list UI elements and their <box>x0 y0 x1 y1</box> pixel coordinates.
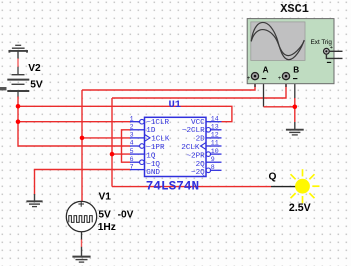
svg-text:10: 10 <box>211 148 219 155</box>
svg-text:9: 9 <box>211 156 215 163</box>
battery V2 <box>7 75 29 98</box>
wire: clock vertical V1 to top <box>81 90 83 202</box>
svg-text:U1: U1 <box>169 99 182 111</box>
svg-text:V2: V2 <box>28 63 41 74</box>
ground (bottom left) <box>26 194 42 207</box>
svg-text:~1Q: ~1Q <box>146 161 160 169</box>
wire: battery top pin (red segment) <box>17 59 19 68</box>
scope waveform trace 1 <box>251 22 304 59</box>
svg-text:12: 12 <box>211 132 219 139</box>
pin 12 2D <box>196 132 222 144</box>
wire: GND pin 7 to ground <box>35 170 131 195</box>
svg-text:1D: 1D <box>146 127 156 135</box>
junction clock/1CLK <box>80 136 85 141</box>
svg-text:B: B <box>293 65 299 74</box>
probe Q indicator <box>291 169 320 203</box>
svg-text:+: + <box>278 76 282 82</box>
pin 4 ~1PR <box>130 140 165 152</box>
svg-text:5V: 5V <box>30 79 43 90</box>
svg-text:A: A <box>263 65 269 74</box>
wire: Q net to scope B <box>112 84 286 98</box>
svg-text:VCC: VCC <box>191 119 205 127</box>
wire: VCC net battery to pin 14 <box>18 106 232 121</box>
scope A+ terminal stem <box>254 80 256 87</box>
wire: battery to pin 1 ~1CLR <box>18 121 130 123</box>
svg-text:1CLK: 1CLK <box>151 136 170 144</box>
svg-text:1: 1 <box>130 115 134 122</box>
Ext Trig terminal <box>324 45 343 63</box>
pin 1 ~1CLR <box>130 115 170 126</box>
wire: battery down leg to pin4 row <box>18 97 130 147</box>
pin 13 ~2CLR <box>182 124 222 136</box>
svg-text:8: 8 <box>211 164 215 171</box>
pin 6 ~1Q <box>130 156 161 169</box>
svg-text:~2PR: ~2PR <box>186 152 205 160</box>
svg-text:2.5V: 2.5V <box>289 202 311 214</box>
pin 14 VCC <box>191 115 221 126</box>
svg-text:~2Q: ~2Q <box>191 169 205 177</box>
pin 2 1D <box>130 124 156 136</box>
wire: Q net to pin 5 1Q <box>112 153 130 155</box>
oscilloscope XSC1 body <box>247 19 334 84</box>
pin 5 1Q <box>130 148 156 161</box>
scope screen <box>251 22 305 61</box>
ground (below V1) <box>72 240 90 263</box>
svg-text:2D: 2D <box>196 136 206 144</box>
svg-text:2CLK: 2CLK <box>181 144 200 152</box>
svg-text:3: 3 <box>130 132 134 139</box>
svg-text:13: 13 <box>211 124 219 131</box>
junction scope ground <box>293 105 298 110</box>
svg-text:+: + <box>247 76 251 82</box>
svg-text:74LS74N: 74LS74N <box>146 179 199 194</box>
svg-text:2Q: 2Q <box>196 161 206 169</box>
svg-text:7: 7 <box>130 163 134 170</box>
junction at battery y=122 <box>16 119 21 124</box>
svg-text:~1CLR: ~1CLR <box>146 119 169 127</box>
svg-text:Q: Q <box>269 171 277 182</box>
pin 10 ~2PR <box>186 148 221 161</box>
svg-text:XSC1: XSC1 <box>280 2 309 16</box>
pin 8 ~2Q <box>191 164 221 177</box>
terminal B <box>278 73 298 83</box>
svg-text:6: 6 <box>130 156 134 163</box>
junction Q/1Q <box>110 152 115 157</box>
svg-text:V1: V1 <box>99 192 112 203</box>
wire: Q net vertical <box>111 98 113 187</box>
svg-text:4: 4 <box>130 140 134 147</box>
svg-text:+: + <box>330 45 333 51</box>
svg-text:1Hz: 1Hz <box>98 222 116 233</box>
svg-text:5: 5 <box>130 148 134 155</box>
wire: clock to pin 3 1CLK <box>82 137 130 139</box>
wire: feedback ~1Q to 1D <box>122 130 131 162</box>
svg-text:11: 11 <box>211 140 219 147</box>
ground (below scope) <box>286 122 304 135</box>
svg-text:2: 2 <box>130 124 134 131</box>
IC U1 74LS74N body <box>145 117 207 176</box>
svg-text:~1PR: ~1PR <box>146 144 165 152</box>
wire: scope B minus down <box>294 77 296 99</box>
svg-text:14: 14 <box>211 115 219 122</box>
pin 7 GND <box>130 163 161 177</box>
pin 3 1CLK <box>130 132 170 144</box>
pin 11 2CLK <box>181 140 221 152</box>
scope B+ terminal stem <box>285 80 287 87</box>
svg-text:-0V: -0V <box>118 210 134 221</box>
wire: Q net to probe (black part) <box>271 186 296 188</box>
edge artifact marks (cropped content at left edge) <box>0 87 7 90</box>
svg-text:GND: GND <box>146 169 160 177</box>
ground (top of battery V2) <box>9 45 27 58</box>
junction at battery y=106 <box>16 104 21 109</box>
svg-text:~2CLR: ~2CLR <box>182 127 205 135</box>
svg-text:5V: 5V <box>98 210 111 221</box>
svg-text:1Q: 1Q <box>146 152 156 160</box>
wire: scope A minus to ground <box>263 77 265 107</box>
wire: clock to scope A <box>82 84 255 90</box>
pin 9 2Q <box>196 156 222 169</box>
wire: Q net to probe (red part) <box>112 186 271 188</box>
scope waveform trace 2 <box>251 30 304 56</box>
clock source V1 <box>66 201 96 240</box>
terminal A <box>247 73 266 83</box>
